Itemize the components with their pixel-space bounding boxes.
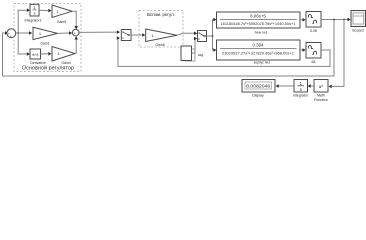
wire: feedback from delay2 into ManualSwitch1 bottom input	[117, 36, 330, 66]
wire: TF2 to delay2	[300, 48, 306, 52]
gain Gain6 (aux regulator)	[146, 29, 177, 47]
derivative du/dt	[30, 49, 46, 65]
svg-text:Gain6: Gain6	[155, 43, 164, 47]
transport delay 1	[306, 12, 321, 34]
svg-text:Вспом. регул.: Вспом. регул.	[147, 12, 175, 17]
wire: sum S1 out to branch and Gain1	[16, 31, 32, 35]
svg-text:+: +	[74, 31, 76, 35]
wire: branch up to Integrator1	[18, 8, 30, 33]
integrator (bottom, flipped)	[293, 80, 309, 98]
svg-text:161180448.7s³+5592025.78s²+104: 161180448.7s³+5592025.78s²+1040.00s+1	[221, 22, 296, 26]
svg-text:8.0082046: 8.0082046	[246, 84, 270, 89]
svg-text:Основной регулятор: Основной регулятор	[22, 64, 74, 71]
wire: switch2 out, branch to TF1 and TF2	[207, 18, 217, 52]
wire: Gain5 down into sum S2 top	[72, 11, 78, 29]
wire: branch down to Derivative	[18, 33, 30, 56]
svg-text:Gain5: Gain5	[57, 20, 66, 24]
gain Gain4	[52, 47, 75, 65]
wire: branch down to Math Function (square of signal)	[329, 20, 345, 89]
svg-text:корпус №1: корпус №1	[254, 60, 271, 64]
wire: Integrator1 to Gain5	[39, 9, 52, 13]
transport delay 2	[306, 43, 321, 65]
svg-text:Derivative: Derivative	[30, 61, 46, 65]
svg-text:Scope2: Scope2	[352, 29, 364, 33]
wire: Gain1 to sum S2	[58, 31, 73, 35]
wire: Derivative to Gain4	[41, 52, 52, 56]
sum S2 (round)	[72, 29, 79, 36]
wire: Gain4 up into sum S2 bottom	[74, 36, 78, 53]
svg-text:23029537.27s³+327820.86s²+968.: 23029537.27s³+327820.86s²+968.00s+1	[222, 51, 294, 55]
area box: Вспом. регул. (dashed)	[139, 11, 183, 48]
svg-text:печь №1: печь №1	[255, 31, 268, 35]
svg-text:Gain1: Gain1	[40, 42, 49, 46]
wire: Integrator to Display	[276, 84, 295, 88]
svg-text:зад.: зад.	[198, 53, 204, 57]
svg-text:Display: Display	[252, 94, 264, 98]
svg-text:8.06s+5: 8.06s+5	[250, 14, 266, 19]
wire: Gain6 to ManualSwitch2 top input	[177, 32, 197, 36]
svg-text:Integrator1: Integrator1	[25, 18, 42, 22]
manual switch 2	[198, 31, 207, 42]
svg-text:Gain4: Gain4	[61, 61, 70, 65]
wire: TF1 to delay1	[300, 18, 306, 22]
scope Scope2	[351, 11, 366, 33]
svg-text:u²: u²	[319, 84, 324, 90]
svg-text:0.394: 0.394	[253, 43, 265, 48]
gain Gain1	[33, 27, 58, 45]
wire: feedback main loop (scope line down to input sum)	[3, 20, 335, 77]
wire: sum S2 to ManualSwitch1 top input	[79, 30, 120, 34]
transfer function TF2 (корпус)	[217, 40, 301, 64]
svg-text:du/dt: du/dt	[32, 53, 39, 57]
wire: constant up into ManualSwitch2 bottom input	[192, 37, 198, 53]
sum S1 (input, round)	[7, 29, 16, 39]
integrator Integrator1 (1/s)	[25, 4, 42, 22]
svg-text:Function: Function	[314, 98, 327, 102]
wire: math function to Integrator (flipped)	[308, 84, 315, 88]
area box: Основной регулятор (dashed)	[14, 4, 81, 72]
constant (зад.)	[181, 46, 204, 61]
wire: switch1 to Gain6	[131, 33, 145, 37]
wire: delay1 to Scope2 with branch dots	[321, 18, 351, 22]
transfer function TF1 (печь)	[217, 12, 301, 35]
svg-text:0.06: 0.06	[310, 29, 317, 33]
svg-text:Integrator: Integrator	[293, 94, 309, 98]
svg-text:s: s	[34, 11, 36, 16]
svg-text:68: 68	[312, 60, 316, 64]
gain Gain5	[52, 5, 72, 24]
manual switch 1	[121, 30, 131, 41]
math function u^2 (flipped)	[314, 80, 328, 102]
display	[242, 80, 275, 98]
